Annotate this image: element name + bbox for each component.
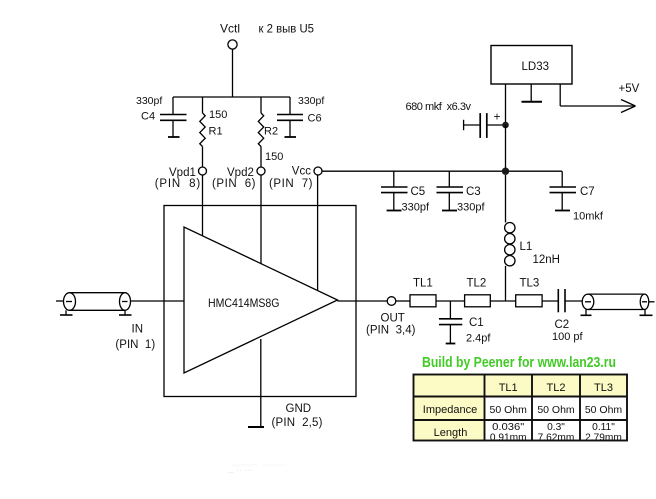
svg-text:C6: C6 [308, 113, 322, 125]
svg-text:(PIN 1): (PIN 1) [115, 339, 155, 351]
svg-text:IN: IN [132, 324, 144, 336]
ground (LD33 middle pin) [522, 84, 543, 102]
svg-text:LD33: LD33 [522, 61, 550, 73]
value 680 mkf x6.3v [406, 101, 472, 113]
svg-text:+: + [494, 110, 501, 124]
svg-text:0.91mm: 0.91mm [490, 432, 527, 443]
op-amp U1 amplifier triangle [184, 227, 338, 373]
svg-text:680 mkf x6.3v: 680 mkf x6.3v [406, 101, 472, 113]
svg-text:330pf: 330pf [457, 202, 485, 214]
value 150 (R2) [265, 151, 283, 163]
label C1 [469, 317, 484, 329]
node Vctl label [220, 21, 240, 35]
svg-text:100 pf: 100 pf [552, 331, 584, 343]
svg-text:50 Ohm: 50 Ohm [585, 404, 623, 416]
svg-text:10mkf: 10mkf [573, 211, 604, 223]
svg-text:150: 150 [265, 151, 283, 163]
label TL2 [467, 278, 487, 290]
svg-text:Vctl: Vctl [220, 21, 240, 35]
value 12nH [533, 254, 561, 266]
table row Impedance [423, 404, 623, 416]
svg-text:Vcc: Vcc [292, 166, 311, 178]
svg-text:(PIN 8): (PIN 8) [155, 178, 201, 190]
svg-text:L1: L1 [520, 241, 533, 253]
svg-text:(PIN 2,5): (PIN 2,5) [272, 417, 323, 429]
inductor L1 [505, 175, 515, 301]
coax connector (output) [582, 294, 649, 309]
wire GND stub from triangle [260, 339, 262, 427]
pin (PIN 2,5) [272, 417, 323, 429]
pin (PIN 7) [269, 178, 313, 190]
node Vcc label [292, 166, 311, 178]
pin (PIN 6) [212, 178, 256, 190]
wire input stub [56, 300, 64, 302]
label R1 [209, 125, 223, 137]
svg-text:Impedance: Impedance [423, 404, 477, 416]
capacitor C3 [437, 171, 464, 210]
svg-text:C3: C3 [466, 186, 481, 198]
wire Vpd2 into chip [260, 175, 262, 264]
svg-text:2.4pf: 2.4pf [466, 333, 491, 345]
wire TL3 to C2 [542, 300, 558, 302]
svg-text:TL2: TL2 [547, 382, 566, 394]
node IN label [132, 324, 144, 336]
svg-text:TL2: TL2 [467, 278, 487, 290]
wire output from triangle apex [338, 300, 388, 302]
terminal Vpd1 [199, 167, 207, 175]
wire TL2 to TL3 [490, 300, 515, 302]
terminal OUT [387, 297, 396, 306]
coax connector (input) [64, 293, 131, 311]
value 330pf (C3) [457, 202, 485, 214]
label TL1 [413, 278, 433, 290]
label L1 [520, 241, 533, 253]
svg-text:50 Ohm: 50 Ohm [537, 404, 575, 416]
label C7 [580, 186, 595, 198]
wire Vctl down to bus [232, 49, 234, 97]
ground tick (output coax left) [581, 310, 592, 316]
op-amp U1 package outline [164, 206, 356, 397]
label TL3 [520, 278, 540, 290]
ground tick (input coax left) [60, 310, 73, 315]
pin (PIN 1) [115, 339, 155, 351]
table: TL parameters [414, 375, 628, 441]
junction (cap / LD33 out) [502, 122, 509, 129]
svg-text:Vpd2: Vpd2 [227, 167, 254, 179]
pin (PIN 3,4) [366, 325, 416, 337]
label +5V [619, 83, 640, 95]
svg-text:12nH: 12nH [533, 254, 561, 266]
transmission line TL2 [465, 295, 491, 307]
capacitor C6 [277, 97, 303, 137]
svg-text:Build by Peener for www.lan23.: Build by Peener for www.lan23.ru [422, 354, 616, 371]
label C2 [555, 319, 570, 331]
terminal Vctl [228, 40, 237, 49]
capacitor C8 (680mkf electrolytic) [464, 113, 506, 138]
arrow +5V [621, 100, 636, 113]
transmission line TL1 [410, 295, 436, 307]
value 330pf (C4) [136, 95, 162, 107]
svg-text:C7: C7 [580, 186, 595, 198]
label C6 [308, 113, 322, 125]
node Vpd1 label [169, 167, 196, 179]
svg-text:7.62mm: 7.62mm [538, 432, 575, 443]
value 100 pf [552, 331, 584, 343]
svg-text:TL1: TL1 [413, 278, 433, 290]
ground tick (input coax right) [119, 310, 132, 315]
label C3 [466, 186, 481, 198]
svg-text:TL1: TL1 [499, 382, 518, 394]
svg-text:OUT: OUT [381, 312, 405, 324]
capacitor C5 [381, 171, 408, 210]
polarity + [494, 110, 501, 124]
label C4 [141, 111, 155, 123]
wire Vcc into chip [317, 175, 319, 290]
wire Vcc rail to the right [322, 170, 562, 172]
value 330pf (C5) [402, 202, 430, 214]
capacitor C7 [550, 171, 577, 210]
capacitor C1 [439, 301, 462, 344]
svg-text:HMC414MS8G: HMC414MS8G [208, 296, 280, 310]
wire top bus [173, 96, 290, 98]
svg-text:Vpd1: Vpd1 [169, 167, 196, 179]
value 10mkf [573, 211, 604, 223]
label R2 [264, 126, 278, 138]
svg-text:2.79mm: 2.79mm [585, 432, 622, 443]
svg-text:(PIN 7): (PIN 7) [269, 178, 313, 190]
wire TL1 to TL2 [436, 300, 465, 302]
wire LD33 output pin down [505, 84, 507, 125]
capacitor C4 [160, 97, 187, 137]
junction (Vcc rail / L1) [502, 168, 509, 175]
svg-text:330pf: 330pf [136, 95, 162, 107]
svg-text:TL3: TL3 [520, 278, 540, 290]
node OUT label [381, 312, 405, 324]
ground tick (output coax right) [640, 310, 653, 316]
net note: к 2 выв U5 [259, 22, 315, 36]
resistor R1 [200, 97, 205, 167]
table header TL2 [547, 382, 566, 394]
resistor R2 [258, 97, 263, 167]
svg-text:TL3: TL3 [594, 382, 613, 394]
table header TL3 [594, 382, 613, 394]
svg-text:R1: R1 [209, 125, 223, 137]
svg-text:Length: Length [434, 427, 468, 439]
svg-text:C4: C4 [141, 111, 155, 123]
wire coax to chip IN [131, 300, 185, 302]
terminal Vpd2 [257, 167, 265, 175]
value 330pf (C6) [298, 95, 324, 107]
wire junction down to Vcc rail [505, 125, 507, 171]
node Vpd2 label [227, 167, 254, 179]
node GND label [286, 403, 312, 415]
svg-text:C1: C1 [469, 317, 484, 329]
wire LD33 input pin to +5V [560, 84, 634, 106]
table row Length [434, 422, 622, 443]
pin (PIN 8) [155, 178, 201, 190]
svg-text:+5V: +5V [619, 83, 640, 95]
svg-text:(PIN 3,4): (PIN 3,4) [366, 325, 416, 337]
watermark Build by Peener for www.lan23.ru [422, 354, 616, 371]
value 150 (R1) [209, 109, 227, 121]
label LD33 [522, 61, 550, 73]
svg-text:330pf: 330pf [402, 202, 430, 214]
svg-text:C2: C2 [555, 319, 570, 331]
svg-text:330pf: 330pf [298, 95, 324, 107]
capacitor C2 [558, 289, 582, 312]
svg-text:C5: C5 [411, 186, 426, 198]
svg-text:GND: GND [286, 403, 312, 415]
wire output stub [649, 301, 655, 303]
faint erased watermark remnant [227, 463, 286, 474]
value 2.4pf [466, 333, 491, 345]
terminal Vcc [314, 167, 322, 175]
label C5 [411, 186, 426, 198]
voltage regulator LD33 [491, 46, 572, 85]
svg-text:50 Ohm: 50 Ohm [490, 404, 528, 416]
svg-text:(PIN 6): (PIN 6) [212, 178, 256, 190]
transmission line TL3 [516, 295, 542, 307]
wire OUT to TL1 [396, 300, 410, 302]
svg-text:R2: R2 [264, 126, 278, 138]
ground bar (GND pin) [248, 426, 264, 428]
table header TL1 [499, 382, 518, 394]
label HMC414MS8G [208, 296, 280, 310]
svg-text:к 2 выв U5: к 2 выв U5 [259, 22, 315, 36]
svg-text:150: 150 [209, 109, 227, 121]
wire Vpd1 into chip [202, 175, 204, 236]
